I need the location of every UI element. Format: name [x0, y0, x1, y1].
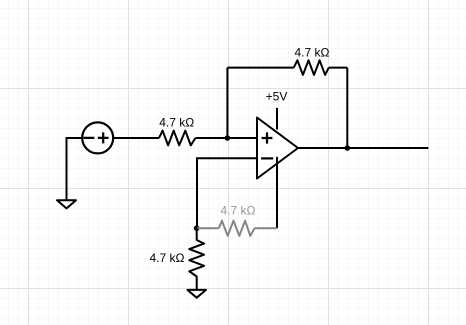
- +5V supply wire: [276, 108, 278, 130]
- wire feedback right vertical: [346, 68, 348, 148]
- resistor R1 4.7 kΩ: [159, 131, 195, 146]
- wire feedback left vertical: [226, 68, 228, 138]
- resistor R4 4.7 kΩ gray: [219, 221, 255, 236]
- ground G1: [57, 200, 76, 208]
- svg-text:4.7 kΩ: 4.7 kΩ: [150, 251, 185, 265]
- wire feedback top left: [227, 67, 293, 69]
- wire source left to ground: [67, 138, 83, 200]
- wire output: [298, 147, 428, 149]
- svg-text:4.7 kΩ: 4.7 kΩ: [295, 46, 330, 60]
- wire gray left lead: [197, 227, 219, 229]
- wire R1 to op-amp + input: [195, 137, 257, 139]
- ground G2: [187, 290, 206, 298]
- svg-text:+5V: +5V: [266, 90, 288, 104]
- node B junction dot at output: [345, 145, 351, 151]
- wire source to R1: [113, 137, 159, 139]
- wire R4 right lead riser to inverting input: [276, 157, 278, 228]
- svg-text:4.7 kΩ: 4.7 kΩ: [221, 203, 256, 217]
- resistor R2 4.7 kΩ feedback: [294, 60, 329, 75]
- wire gray right lead: [255, 227, 278, 229]
- node A junction dot: [225, 135, 231, 141]
- svg-text:4.7 kΩ: 4.7 kΩ: [159, 116, 194, 130]
- wire op-amp inverting input: [197, 158, 257, 228]
- op-amp U1: [257, 118, 298, 179]
- wire feedback top right: [329, 67, 348, 69]
- node C junction dot: [194, 225, 200, 231]
- resistor R3 4.7 kΩ vertical: [189, 228, 204, 289]
- voltage source V1: [82, 122, 113, 153]
